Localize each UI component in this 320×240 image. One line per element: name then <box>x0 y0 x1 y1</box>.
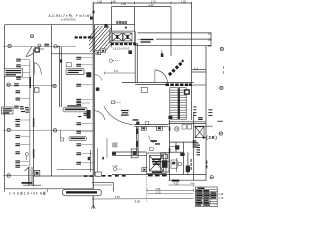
grid circle C2 <box>53 129 56 132</box>
grid circle R3 right <box>219 132 222 135</box>
note tick pair mid y102.8 <box>76 102 90 105</box>
vertical text column x190-193 <box>191 159 192 170</box>
toilet fixture marks <box>180 153 184 156</box>
note tick pair mid y144 <box>76 143 92 146</box>
right margin dash marks <box>223 66 225 74</box>
note tick pair mid y114.5 <box>78 113 88 117</box>
note tick pair left y136 <box>15 135 29 138</box>
label box left A <box>4 69 30 76</box>
grid circle R2 right <box>220 86 223 89</box>
note tick pair left y161 <box>15 160 28 163</box>
grid circle B1 <box>7 83 10 86</box>
grid circle A2 mid top <box>54 45 57 48</box>
shaft X-box right <box>195 127 204 138</box>
PS pipe-shaft box with X <box>147 153 166 174</box>
wall mid horizontal double to stair <box>122 81 194 83</box>
grid line y130 <box>3 129 93 131</box>
dim line y72 <box>105 72 136 74</box>
door frame line left of spine bottom <box>90 150 92 172</box>
svg-text:ヶ500×500: ヶ500×500 <box>61 18 76 22</box>
svg-text:1.45: 1.45 <box>218 193 223 196</box>
wall bottom mid <box>92 181 113 183</box>
small box below wall y84 <box>141 87 147 92</box>
note tick pair mid y162.5 <box>76 162 92 165</box>
grid circle R4 right <box>210 176 213 179</box>
tiny text above box C <box>67 105 81 106</box>
small dark box corridor y50-54 <box>128 50 132 54</box>
dark dash on bottom wall <box>172 180 180 182</box>
open square on wall x33.6 y88 <box>34 88 39 92</box>
note tick pair left y65 <box>16 64 30 67</box>
wall right connection y69.5-72 <box>192 69 207 71</box>
note tick pair left y59 <box>16 59 30 62</box>
wall shaft top right <box>194 125 213 127</box>
door arc corridor bottom-left <box>95 75 102 81</box>
entrance step lines <box>138 32 212 34</box>
dark blob left of spine y157 <box>88 157 90 160</box>
keyed note icon y101 <box>111 101 121 104</box>
smoke vent window W2 <box>123 33 132 41</box>
landing line right of stair <box>192 84 207 86</box>
dark dashes corridor bottom left part <box>84 175 93 177</box>
note tick pair mid y57.5 <box>76 57 92 60</box>
wall dark segment on x33.6 <box>29 77 31 88</box>
title label box bottom (stadium) <box>62 189 101 196</box>
wall mid-right vertical double <box>134 31 136 83</box>
note tick pair left y144 <box>15 143 29 146</box>
small dark mark on spine top <box>93 11 95 14</box>
label box mid E <box>66 68 88 75</box>
svg-text:1.20: 1.20 <box>112 164 118 168</box>
note tick pair mid y84.5 <box>76 84 92 87</box>
note tick pair left y91 <box>16 90 21 93</box>
tick stack right toilet wall <box>197 145 200 156</box>
wall room horizontal y124.5 <box>134 124 169 126</box>
grid circle A1 left top <box>8 44 11 47</box>
dim line bottom y198.9 long <box>92 198 194 200</box>
duct dark blob <box>60 59 62 62</box>
wall room vertical x137 lower <box>135 126 137 155</box>
toilet top fixture boxes <box>169 125 191 147</box>
dim line bottom y193.8 <box>147 193 194 195</box>
wall spine vertical double line <box>92 3 94 205</box>
note tick pair left y152 <box>15 151 19 154</box>
stair lower flight treads <box>170 88 186 120</box>
dark cluster below 2B label <box>193 140 199 147</box>
svg-text:150: 150 <box>208 45 213 48</box>
smoke vent window detail outer box <box>110 31 135 43</box>
stair direction diagonal text <box>168 59 184 76</box>
svg-text:1.65: 1.65 <box>155 187 161 191</box>
grid circle R1 right <box>220 47 223 50</box>
note tick pair mid y153 <box>76 152 92 155</box>
door swing corridor right y70-84 <box>155 70 168 84</box>
wall right edge lower part <box>205 46 207 181</box>
svg-text:1.40: 1.40 <box>111 0 117 4</box>
grid circle C1 <box>7 128 10 131</box>
grid circle D1 <box>7 174 10 177</box>
dim line below toilet <box>169 184 194 186</box>
benchmark symbol bottom <box>91 204 95 209</box>
thin vertical x107 lower room <box>106 138 108 158</box>
wall right room horizontal y122 <box>169 121 207 123</box>
hatched wall band under smoke-vent windows <box>111 43 137 45</box>
label box left B <box>2 107 14 114</box>
table frame bottom right <box>195 187 217 206</box>
wash basin circle <box>175 127 179 131</box>
PS box dark label text <box>152 158 162 173</box>
hall room label text <box>151 140 158 142</box>
dark footer under door verticals <box>22 182 33 184</box>
keyed note icon y143-147 <box>113 143 117 147</box>
dark blob near spine top <box>90 17 93 20</box>
grid line y86 <box>6 85 57 87</box>
wall corridor bottom <box>34 175 94 177</box>
stair flight border <box>94 24 135 47</box>
wall top edge of upper-right block <box>93 2 191 4</box>
small boxes above hall wall <box>136 122 139 125</box>
svg-text:150: 150 <box>208 39 213 42</box>
note tick pair left y124.5 <box>15 124 19 127</box>
svg-text:1500×500: 1500×500 <box>113 47 130 51</box>
wall vertical x171 <box>170 7 172 56</box>
room note text block mid <box>121 110 129 116</box>
svg-text:1.70: 1.70 <box>151 0 157 4</box>
small boxes under upper stair <box>96 49 106 55</box>
svg-text:1.80: 1.80 <box>121 2 127 6</box>
hatched wall band left of spine <box>75 36 94 38</box>
note tick pair left y165.5 <box>15 165 28 168</box>
svg-text:1.70: 1.70 <box>218 197 223 200</box>
door swing left room mid <box>34 63 41 75</box>
small arc at PS corner <box>149 136 154 143</box>
wall vertical x134.5 <box>134 7 136 32</box>
wall top edge of left block <box>5 24 94 26</box>
wall dark segments x169.4 <box>169 127 171 131</box>
note tick pair mid y123 <box>76 122 92 125</box>
keyed note circle y169 <box>113 167 123 170</box>
svg-text:1.70: 1.70 <box>155 190 161 194</box>
note tick pair left y77.5 <box>16 77 30 80</box>
svg-text:150: 150 <box>208 32 213 35</box>
svg-text:1.45: 1.45 <box>115 195 121 199</box>
stair lower flight dark landing band <box>166 84 192 87</box>
small knob circle on wall bottom-left <box>25 153 28 161</box>
table text blobs <box>196 188 216 206</box>
smoke vent pointer <box>125 27 128 30</box>
wall interior vertical x33.6 <box>33 49 35 186</box>
smoke vent window W1 <box>112 33 122 41</box>
tiny label stack x193.5 <box>193 107 196 116</box>
toilet shaft box with dark core <box>160 153 169 172</box>
shaft dark blob on spine lower <box>87 110 91 119</box>
dim line bottom y185 <box>93 184 112 186</box>
note tick pair left y119.5 <box>15 119 29 122</box>
grid line y175.5 <box>3 175 33 177</box>
svg-text:1.6: 1.6 <box>194 67 198 71</box>
note tick pair left y84 <box>14 83 19 86</box>
svg-text:排煙窓図: 排煙窓図 <box>116 19 128 24</box>
top dimension ticks <box>93 2 191 5</box>
dark hinge circle on spine <box>96 87 100 91</box>
svg-text:1.8: 1.8 <box>114 69 118 73</box>
door cluster on wall y152 <box>131 149 138 158</box>
keyed note circle y60 <box>109 59 119 62</box>
grid circle room top-left <box>30 35 33 38</box>
dark dash right of spine y157 <box>102 157 104 160</box>
wall corridor top <box>51 53 93 55</box>
smoke vent annotation text rows right <box>141 39 154 43</box>
stair bottom dark mark <box>168 116 172 119</box>
dim line bottom y190.3 <box>147 189 194 192</box>
wall vertical x111.5 <box>111 7 113 32</box>
toilet small basin box <box>171 160 177 168</box>
small box pair above PS <box>149 148 153 151</box>
toilet bowl circle <box>178 162 182 166</box>
grid line y46 <box>3 45 76 47</box>
corridor bench line y169.3 <box>57 168 93 170</box>
wall interior vertical x51.4 <box>50 25 52 176</box>
stair central dark rail <box>178 88 180 119</box>
svg-text:2.40: 2.40 <box>149 3 155 7</box>
wall bottom right room <box>169 179 207 181</box>
grid circle B2 <box>53 84 56 87</box>
svg-text:4.55: 4.55 <box>174 181 180 185</box>
tick cluster right of box B <box>14 106 29 113</box>
svg-text:1.50: 1.50 <box>97 0 103 4</box>
wall left edge <box>4 25 6 189</box>
wall vertical x193.7 <box>193 112 195 181</box>
label box mid D <box>69 136 87 140</box>
bottom frame line <box>4 188 93 190</box>
toilet fixture WC dark <box>175 145 179 149</box>
wall toilet partitions <box>168 120 170 181</box>
toilet urinal dark rect <box>186 166 190 173</box>
small label box right of duct <box>66 63 71 67</box>
door swing right of spine y110 <box>95 111 105 121</box>
svg-text:1:4 6あ1チ+04 A部: 1:4 6あ1チ+04 A部 <box>9 191 47 196</box>
wall inner top line <box>112 6 172 8</box>
note tick pair mid y64.5 <box>76 64 92 67</box>
tiny label stack right margin <box>208 109 223 121</box>
note tick pair mid y131.5 <box>76 131 92 134</box>
dark dash wall y152 left end <box>112 152 116 155</box>
small box window mark on top edge <box>104 24 107 28</box>
room label (2B) dark <box>203 136 206 139</box>
door post square top-left room <box>34 44 44 53</box>
note tick pair x45 y44 <box>44 44 49 47</box>
column marker x161.5 <box>161 53 164 57</box>
stair top-right dark box <box>184 89 190 95</box>
wall horizontal y152-155 <box>112 151 147 153</box>
door swing big arc room below <box>104 106 133 125</box>
box on corridor wall bottom <box>95 148 101 176</box>
label box mid C <box>63 107 89 113</box>
vertical dim text right toilet wall <box>206 161 207 169</box>
dark dashes on wall y174-176 <box>96 175 167 177</box>
svg-text:5.00: 5.00 <box>135 200 141 204</box>
small box above wall y174 <box>142 168 147 172</box>
table connector lines <box>190 183 194 187</box>
note tick pair left y98 <box>16 98 30 101</box>
door leaf top-left room <box>26 47 34 57</box>
door posts on wall y126 <box>141 126 162 130</box>
shaft dark blob on spine upper <box>86 72 91 77</box>
duct double vertical x59.6-61.3 <box>59 47 61 107</box>
wall band y174.4 <box>112 173 206 175</box>
wall right edge of upper-right block <box>191 3 193 120</box>
svg-text:(2B): (2B) <box>206 135 217 140</box>
dim vertical dashed x146.8 <box>146 176 148 202</box>
small L fixture below grid line <box>60 130 63 141</box>
bottom-left door fixtures <box>23 167 41 185</box>
tick labels right of shaft <box>198 117 203 118</box>
note tick pair mid y99.5 <box>76 99 92 102</box>
svg-text:1.50: 1.50 <box>181 0 187 4</box>
